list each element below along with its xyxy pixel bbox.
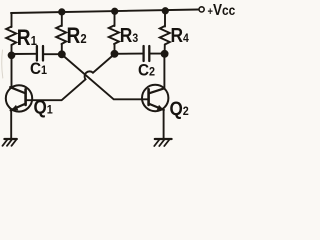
label R1 [17, 26, 37, 51]
label Q1 [34, 97, 54, 118]
svg-text:+Vcc: +Vcc [208, 2, 236, 19]
wire R3 top lead [114, 11, 116, 26]
capacitor C1 [12, 46, 60, 61]
wire R1 top lead [11, 13, 13, 27]
node Q2 collector / C2 junction [162, 51, 168, 57]
label C2 [138, 61, 155, 80]
wire Q1 emitter to ground [10, 110, 12, 139]
ground left [3, 139, 17, 146]
label +Vcc [208, 2, 236, 19]
label C1 [30, 59, 48, 78]
svg-text:C1: C1 [30, 59, 48, 78]
wire R1 bottom lead [11, 45, 13, 56]
junction R2 top [59, 9, 64, 14]
resistor R3 [109, 26, 119, 45]
wire Q1 collector [11, 55, 13, 87]
label R4 [171, 24, 190, 46]
wire R2 bottom lead [61, 44, 63, 54]
label Q2 [170, 98, 189, 119]
resistor R4 [160, 26, 170, 45]
svg-text:R4: R4 [171, 24, 190, 46]
scan artifact left edge [2, 50, 3, 78]
svg-text:R3: R3 [120, 24, 138, 46]
svg-text:C2: C2 [138, 61, 155, 80]
wire cross-coupling node A to Q2 base [62, 55, 149, 100]
capacitor C2 [115, 46, 165, 61]
junction R4 top [163, 8, 168, 13]
wire top supply rail [11, 10, 199, 14]
junction R3 top [112, 9, 117, 14]
wire R4 top lead [164, 11, 166, 27]
svg-text:Q2: Q2 [170, 98, 189, 119]
node Q1 collector junction [9, 52, 15, 58]
transistor Q2 [142, 85, 168, 111]
ground right [154, 139, 171, 146]
label R2 [67, 24, 87, 49]
wire Q2 collector [163, 54, 165, 89]
resistor R2 [56, 26, 66, 45]
node B: C2 / R3 / coupling junction [112, 51, 118, 57]
wire cross-coupling node B to Q1 base (with hop) [26, 54, 115, 100]
wire R3 bottom lead [114, 44, 116, 54]
svg-text:R2: R2 [67, 24, 87, 49]
svg-text:R1: R1 [17, 26, 37, 51]
resistor R1 [6, 27, 16, 46]
wire Q2 emitter to ground [163, 110, 165, 139]
label R3 [120, 24, 138, 46]
wire R2 top lead [61, 12, 63, 26]
node A: C1 / R2 / coupling junction [59, 51, 65, 57]
transistor Q1 [6, 85, 32, 111]
wire R4 bottom lead [164, 45, 166, 54]
terminal +Vcc [199, 7, 204, 12]
